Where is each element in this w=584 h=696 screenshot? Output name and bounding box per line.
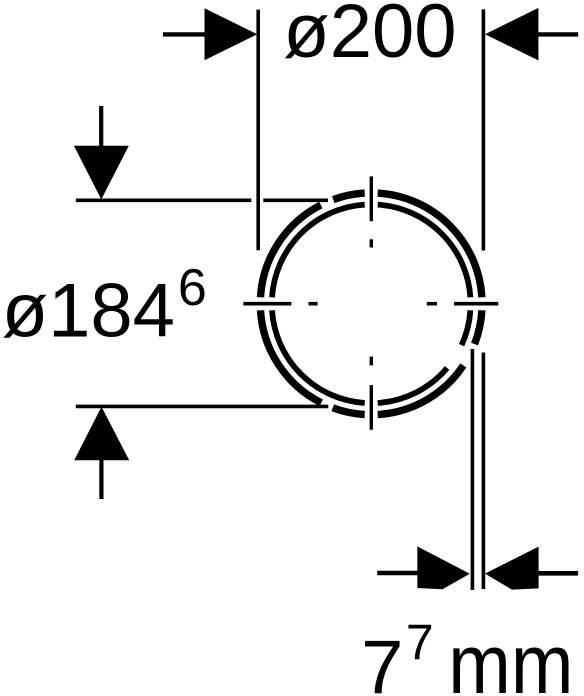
wire: ø200 right extension line — [482, 9, 486, 250]
wire: horizontal centerline right short dash — [427, 302, 437, 306]
wire: horizontal centerline left long dash — [243, 302, 291, 306]
svg-text:6: 6 — [178, 259, 207, 317]
wire: vertical centerline top short dash — [370, 239, 373, 247]
wire: top dimension line right tail — [538, 32, 578, 36]
wire: 7mm dimension left tail — [377, 571, 418, 576]
wire: ø184 top extension line (left of gap) — [76, 199, 252, 203]
node D: left dimension bottom arrowhead (up) — [74, 407, 129, 461]
node A: top dimension left arrowhead — [205, 8, 258, 60]
node C: left dimension top arrowhead (down) — [74, 146, 129, 200]
svg-text:ø200: ø200 — [283, 0, 456, 74]
node E: 7mm dimension left arrowhead — [417, 546, 470, 589]
wire: horizontal centerline left short dash — [309, 302, 318, 306]
wire: left dimension top tail — [99, 106, 103, 147]
wire: 7mm dimension right tail — [539, 571, 579, 576]
svg-text:mm: mm — [448, 617, 573, 696]
inner pipe circle ø184 — [272, 205, 470, 403]
svg-text:7: 7 — [361, 625, 403, 696]
svg-text:7: 7 — [406, 615, 434, 671]
wire: vertical centerline top long dash — [370, 176, 373, 221]
wire: left dimension bottom tail — [99, 460, 103, 500]
wire: vertical centerline bottom short dash — [370, 357, 373, 366]
wire: ø184 top extension line (right of gap) — [263, 199, 328, 203]
wire: top dimension line left tail — [163, 32, 205, 36]
outer pipe circle ø200 — [260, 193, 481, 414]
wire: horizontal centerline right long dash — [454, 302, 498, 306]
wire: ø184 bottom extension line — [76, 405, 328, 409]
wire: ø200 left extension line — [256, 10, 260, 251]
svg-text:ø184: ø184 — [2, 269, 175, 354]
wire: vertical centerline bottom long dash — [370, 385, 373, 430]
node F: 7mm dimension right arrowhead — [485, 547, 539, 590]
node B: top dimension right arrowhead — [485, 8, 538, 61]
wire: wall thickness right extension line — [482, 353, 486, 590]
wire: wall thickness left extension line — [471, 349, 475, 590]
